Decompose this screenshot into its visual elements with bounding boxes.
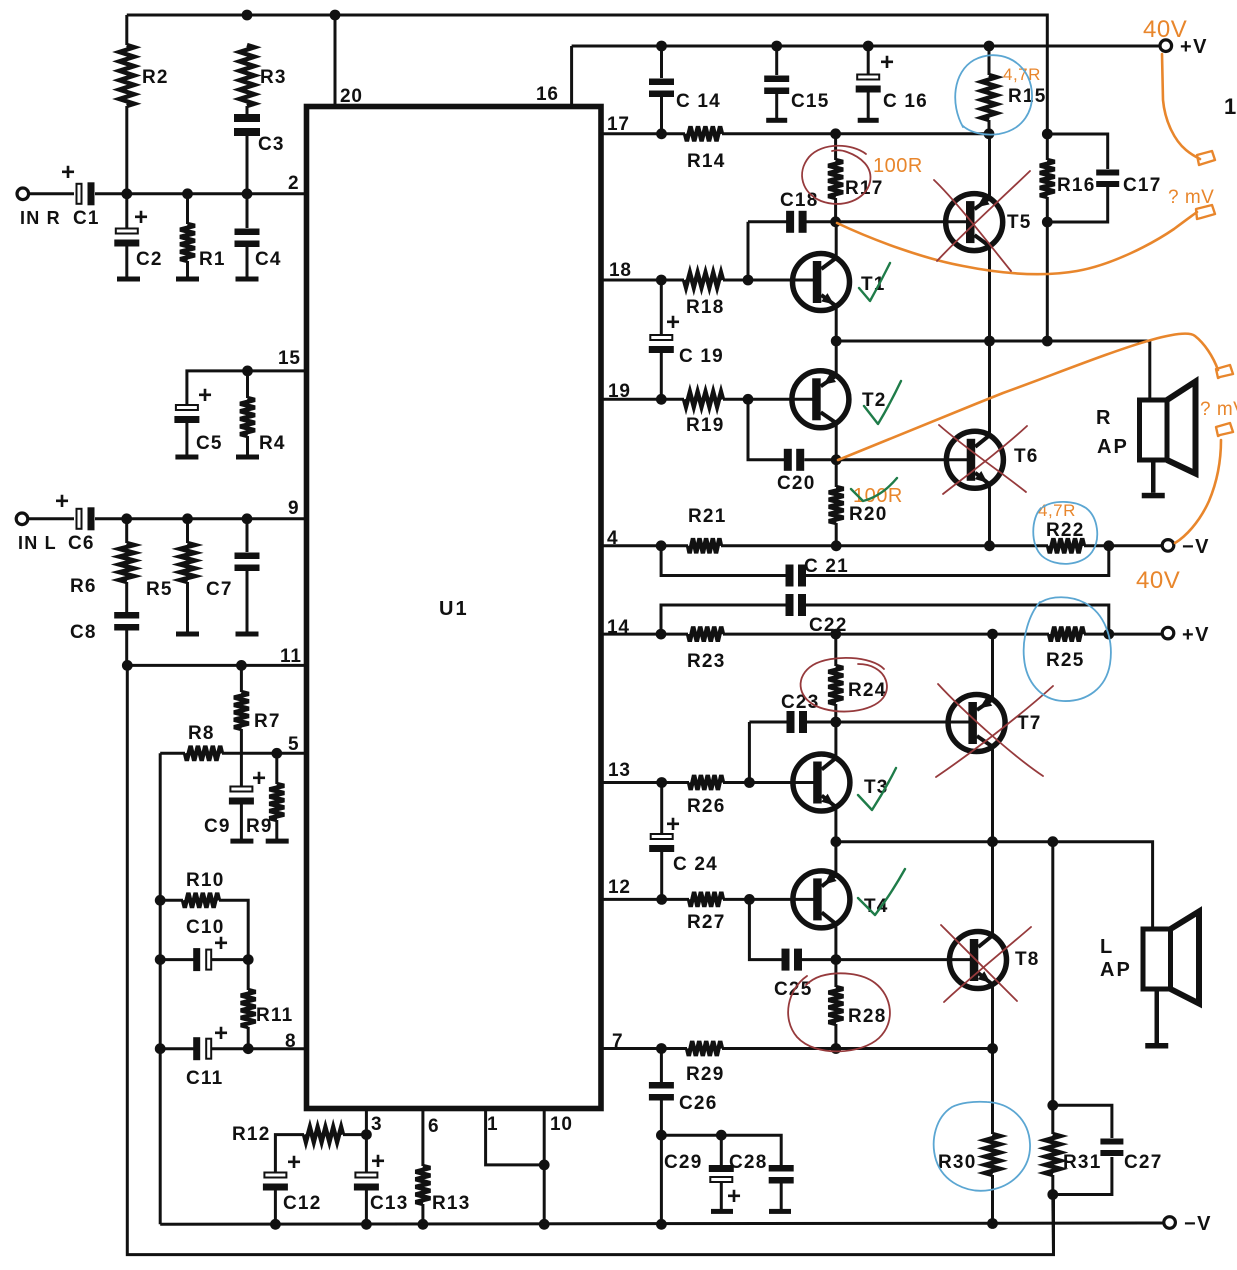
svg-text:C8: C8 (70, 622, 97, 643)
wire C3 to pin2 line (246, 136, 249, 194)
ground bar under C2 (117, 277, 140, 282)
wire T5 emitter up (988, 134, 991, 198)
capacitor C12 (263, 1173, 288, 1191)
svg-text:R8: R8 (188, 723, 215, 744)
svg-text:C3: C3 (258, 134, 285, 155)
transistor T6 (946, 431, 1003, 488)
transistor T4 (793, 871, 850, 928)
ground bar under R5 (176, 632, 199, 637)
wire C6 to pin 9 (95, 517, 307, 520)
svg-text:R25: R25 (1046, 650, 1084, 671)
annotation blue circle around R22 (1033, 502, 1097, 564)
wire pin 15 line (187, 371, 307, 406)
wire R6 stub (125, 519, 128, 543)
svg-text:C 24: C 24 (673, 854, 718, 875)
resistor R21 (688, 538, 721, 553)
svg-text:R7: R7 (254, 711, 281, 732)
wire pin 7 line right (722, 1047, 993, 1050)
terminal +V left-channel (1162, 627, 1174, 639)
capacitor C10 (193, 948, 211, 971)
capacitor C9 (229, 787, 254, 805)
wire pin 10 stub (543, 1109, 546, 1225)
junction node C10 line left (155, 954, 166, 965)
junction node C22 right on pin14 (1103, 629, 1114, 640)
svg-text:R29: R29 (686, 1064, 724, 1085)
ground bar under C16 (858, 118, 879, 123)
transistor T5 (946, 194, 1003, 251)
wire C14 stub (660, 46, 663, 78)
wire R17 to C18 node (834, 198, 837, 222)
junction node R15/T5 on pin17 (984, 128, 995, 139)
wire C23 line left (749, 721, 787, 724)
junction node C7 on pin9 line (242, 513, 253, 524)
wire C7 to ground (246, 571, 249, 633)
resistor R20 (829, 487, 844, 523)
svg-text:1: 1 (1224, 94, 1237, 119)
annotation blue circle around R15 (955, 55, 1032, 134)
junction node R6 on pin9 line (121, 513, 132, 524)
svg-text:+: + (214, 930, 229, 957)
capacitor C11 (193, 1037, 211, 1060)
wire C13 stub (365, 1135, 368, 1172)
resistor R2 (119, 45, 134, 106)
wire pin 20 stub (334, 15, 337, 107)
wire R5 stub (186, 519, 189, 543)
capacitor C15 (764, 76, 789, 95)
wire +V top rail (572, 45, 1161, 48)
resistor R12 (304, 1127, 343, 1142)
svg-text:C17: C17 (1123, 175, 1161, 196)
junction node C21 right on pin4 (1103, 540, 1114, 551)
wire R15 to pin17 line (988, 120, 991, 134)
annotation green check at T1 (859, 263, 890, 301)
svg-text:C 19: C 19 (679, 346, 724, 367)
annotation orange probe connector B (1196, 205, 1215, 219)
annotation blue circle around R25 (1024, 597, 1111, 701)
svg-text:R17: R17 (845, 178, 883, 199)
svg-text:C26: C26 (679, 1093, 717, 1114)
wire pin 17 line right (722, 132, 989, 135)
svg-text:C6: C6 (68, 533, 95, 554)
wire C26 stub (660, 1049, 663, 1083)
svg-text:R3: R3 (260, 67, 287, 88)
wire C9 to ground (240, 804, 243, 839)
wire C27 bottom (1053, 1157, 1112, 1195)
capacitor C27 (1100, 1139, 1123, 1157)
annotation orange probe curve from +V (1162, 54, 1200, 159)
capacitor C21 (786, 565, 807, 587)
svg-text:+: + (134, 204, 149, 231)
capacitor C18 (786, 211, 807, 233)
transistor T3 (793, 754, 850, 811)
svg-text:C7: C7 (206, 579, 233, 600)
junction node R9 on pin5 line (271, 748, 282, 759)
wire R7 stub (240, 665, 243, 692)
wire C26 to C28/C29 line (660, 1100, 663, 1135)
svg-text:C29: C29 (664, 1152, 702, 1173)
resistor R28 (829, 987, 844, 1024)
svg-text:+: + (666, 811, 681, 838)
wire pin 13 line right (723, 781, 817, 784)
svg-text:+: + (61, 159, 76, 186)
junction node C18 branch on pin18 (743, 275, 754, 286)
wire R4 top stub (246, 371, 249, 398)
wire output rail R (836, 341, 1150, 400)
svg-text:19: 19 (608, 381, 631, 402)
svg-text:+: + (252, 765, 267, 792)
svg-text:R22: R22 (1046, 520, 1084, 541)
svg-text:C2: C2 (136, 249, 163, 270)
wire pin 18 line left (601, 279, 684, 282)
junction node C24 top (656, 777, 667, 788)
resistor R11 (241, 990, 256, 1027)
ground bar under C7 (236, 632, 259, 637)
wire pin 7 line left (601, 1047, 687, 1050)
resistor R30 (985, 1134, 1000, 1175)
wire C20 line right (804, 458, 836, 461)
wire R10 left stub (160, 899, 183, 902)
junction node C19 bottom (656, 394, 667, 405)
annotation red X over T6 stroke 1 (939, 425, 1026, 492)
svg-text:IN R: IN R (20, 208, 61, 228)
wire pin 12 line left (601, 898, 689, 901)
junction node R28 on pin7 (831, 1043, 842, 1054)
wire C19 to pin19 line (660, 352, 663, 399)
ground bar under C15 (766, 118, 787, 123)
svg-text:14: 14 (607, 617, 630, 638)
junction node C8/outer border (122, 660, 133, 671)
svg-text:C5: C5 (196, 433, 223, 454)
wire R30 bottom wire (991, 1175, 994, 1224)
svg-text:4,7R: 4,7R (1038, 501, 1076, 520)
svg-text:C4: C4 (255, 249, 282, 270)
svg-text:U1: U1 (439, 598, 469, 620)
svg-text:C13: C13 (370, 1193, 408, 1214)
ground bar under C4 (236, 277, 259, 282)
junction node C25/T4/R28 (831, 954, 842, 965)
svg-text:R: R (1096, 407, 1111, 429)
junction node C13 bottom (361, 1219, 372, 1230)
annotation red X over T5 stroke 2 (937, 171, 1030, 261)
svg-text:R15: R15 (1008, 86, 1046, 107)
svg-text:12: 12 (608, 877, 631, 898)
transistor T7 (948, 695, 1005, 752)
wire T2 emitter to C20 node (835, 423, 838, 460)
wire T6 emitter down (988, 484, 991, 546)
wire R16 bottom to rail (1046, 197, 1049, 341)
svg-text:T8: T8 (1015, 949, 1040, 970)
junction node R7 top (236, 660, 247, 671)
wire T1 collector to C18 node (835, 222, 838, 258)
annotation orange probe curve from T5 base node (837, 212, 1197, 274)
wire C2 to ground (125, 245, 128, 277)
wire C10 line left (160, 958, 195, 961)
wire pin 1 jog (486, 1109, 545, 1165)
junction node R24 top (830, 629, 841, 640)
junction node R3/C4 on pin2 line (242, 188, 253, 199)
junction node R5 on pin9 line (182, 513, 193, 524)
wire C4 stub (246, 194, 249, 228)
junction node C26 top (656, 1043, 667, 1054)
wire pin 17 line left (601, 132, 685, 135)
svg-text:R5: R5 (146, 579, 173, 600)
svg-text:C 14: C 14 (676, 91, 721, 112)
svg-text:R31: R31 (1063, 1152, 1101, 1173)
wire inner left vertical (159, 753, 162, 1224)
wire pin 13 line left (601, 781, 689, 784)
resistor R22 (1048, 538, 1084, 553)
junction node R31 column on rail L (1047, 836, 1058, 847)
junction node pin20 on top rail (330, 10, 341, 21)
wire C20 branch (748, 399, 784, 460)
junction node R10 line left (155, 895, 166, 906)
wire C13 to bottom line (365, 1190, 368, 1225)
svg-text:T6: T6 (1014, 446, 1039, 467)
junction node R3 top on rail (242, 10, 253, 21)
wire C23 line right (807, 721, 836, 724)
capacitor C14 (649, 79, 674, 98)
svg-text:2: 2 (288, 173, 299, 194)
junction node C14 on pin17 (656, 128, 667, 139)
annotation red circle around R24 (801, 658, 887, 712)
wire C17 loop (1047, 134, 1107, 169)
annotation orange probe curve from C20 output node (838, 334, 1218, 460)
annotation green check at T3 (858, 768, 896, 810)
capacitor C5 (174, 405, 199, 423)
svg-text:R13: R13 (432, 1193, 470, 1214)
wire R5 to ground (186, 582, 189, 632)
annotation red X over T5 stroke 1 (934, 180, 1011, 271)
wire R31 stubs (1051, 1105, 1054, 1134)
wire C5 to ground (185, 422, 188, 455)
resistor R23 (688, 627, 723, 642)
svg-text:C15: C15 (791, 91, 829, 112)
capacitor C29 (709, 1165, 734, 1182)
resistor R7 (234, 692, 249, 729)
wire C15 stub (775, 46, 778, 75)
wire R1 to ground (186, 261, 189, 277)
svg-text:R14: R14 (687, 151, 725, 172)
wire R2 to pin2 line (125, 106, 128, 194)
svg-text:C20: C20 (777, 473, 815, 494)
svg-text:+: + (727, 1183, 742, 1210)
junction node R17 top (830, 128, 841, 139)
capacitor C7 (235, 553, 260, 572)
wire C14 to pin17 line (660, 97, 663, 134)
ground bar under C9 (230, 839, 253, 844)
wire C19 stubs (660, 280, 663, 335)
wire C29 stub (720, 1135, 723, 1165)
svg-text:R6: R6 (70, 576, 97, 597)
wire bottom -V line (160, 1223, 1164, 1224)
svg-text:C12: C12 (283, 1193, 321, 1214)
capacitor C13 (354, 1173, 379, 1191)
svg-text:7: 7 (612, 1031, 623, 1052)
svg-text:R1: R1 (199, 249, 226, 270)
wire T8 emitter down (991, 984, 994, 1134)
wire T3 collector up (834, 722, 837, 758)
resistor R1 (180, 224, 195, 261)
wire R28 to pin7 line (834, 1024, 837, 1049)
wire top rail from R2 to R16 corner (127, 15, 1048, 134)
svg-text:−V: −V (1182, 536, 1210, 558)
junction node C21 branch on pin4 (656, 540, 667, 551)
svg-text:6: 6 (428, 1116, 439, 1137)
junction node R13 bottom (418, 1219, 429, 1230)
wire T8 base line (836, 958, 970, 961)
wire R4 to ground (246, 436, 249, 455)
svg-text:+: + (198, 382, 213, 409)
wire pin 5 line left (160, 752, 185, 755)
junction node T1/T2 output (831, 336, 842, 347)
wire C11 line left (160, 1047, 195, 1050)
wire R16 stubs (1046, 134, 1049, 160)
svg-text:+: + (55, 488, 70, 515)
wire C21 line right (806, 546, 1109, 576)
svg-text:R16: R16 (1057, 175, 1095, 196)
svg-text:15: 15 (278, 348, 301, 369)
wire R7 to C9 (240, 729, 243, 786)
speaker R AP (right channel loudspeaker) (1140, 382, 1196, 499)
wire pin 14 line right (1084, 633, 1162, 636)
svg-text:C9: C9 (204, 816, 231, 837)
svg-text:R28: R28 (848, 1006, 886, 1027)
resistor R4 (240, 398, 255, 436)
capacitor C2 (114, 229, 139, 247)
junction node R16 bottom (1042, 217, 1053, 228)
wire R6 to C8 (125, 582, 128, 612)
svg-text:R18: R18 (686, 297, 724, 318)
wire T5 collector down (988, 246, 991, 341)
wire C28/C29 top line (661, 1135, 781, 1165)
transistor T8 (950, 932, 1007, 989)
wire C1 to pin 2 (95, 192, 307, 195)
svg-text:L: L (1100, 936, 1113, 958)
svg-text:C 16: C 16 (883, 91, 928, 112)
transistor T2 (792, 371, 849, 428)
annotation red X over T8 stroke 1 (941, 925, 1017, 1001)
terminal IN R (17, 188, 29, 200)
capacitor C1 (77, 182, 95, 205)
svg-text:R9: R9 (246, 816, 273, 837)
svg-text:1: 1 (487, 1114, 498, 1135)
wire pin 5 line right (222, 752, 307, 755)
wire T2 collector to output rail (835, 341, 838, 375)
capacitor C6 (77, 507, 95, 530)
wire R11 to pin8 line (247, 1027, 250, 1049)
resistor R3 (240, 45, 255, 106)
resistor R10 (183, 893, 219, 908)
terminal -V right (1162, 540, 1174, 552)
junction node T6 emitter on pin4 (984, 540, 995, 551)
junction node R16 column on rail (1042, 336, 1053, 347)
svg-text:C11: C11 (186, 1068, 223, 1089)
svg-text:R10: R10 (186, 870, 224, 891)
wire T7 base line (836, 721, 969, 724)
svg-text:+: + (880, 49, 895, 76)
annotation green check at T4 (858, 869, 905, 915)
wire T7 collector down (991, 747, 994, 842)
svg-text:17: 17 (607, 114, 630, 135)
svg-text:AP: AP (1100, 959, 1132, 981)
svg-text:8: 8 (285, 1031, 296, 1052)
resistor R26 (689, 775, 723, 790)
resistor R31 (1045, 1134, 1060, 1175)
junction node C16 top (863, 41, 874, 52)
wire pin 18 line right (723, 279, 817, 282)
annotation red X over T6 stroke 2 (943, 426, 1027, 494)
wire C16 stub (867, 46, 870, 74)
wire outer left border down (127, 665, 1053, 1254)
svg-text:10: 10 (550, 1114, 573, 1135)
wire T8 collector up (991, 842, 994, 936)
junction node C22 branch on pin14 (656, 629, 667, 640)
junction node C12 bottom (270, 1219, 281, 1230)
junction node R30 bottom on -V line (987, 1218, 998, 1229)
wire pin 3 stub (365, 1109, 368, 1135)
junction node C29 top (716, 1130, 727, 1141)
svg-text:R20: R20 (849, 504, 887, 525)
wire R2 top stub (125, 15, 128, 45)
svg-text:13: 13 (608, 760, 631, 781)
resistor R17 (828, 160, 843, 198)
wire R3 to C3 (246, 106, 249, 115)
svg-text:R21: R21 (688, 506, 726, 527)
ground bar under R4 (236, 455, 259, 460)
resistor R5 (180, 543, 195, 582)
wire C18 line left (748, 220, 787, 223)
wire C4 to ground (246, 247, 249, 278)
wire R24 top stub (834, 634, 837, 666)
wire IN L to C6 (28, 517, 74, 520)
op-amp/power IC U1 box (307, 107, 602, 1109)
transistor T1 (793, 254, 850, 311)
svg-text:16: 16 (536, 84, 559, 105)
wire C25 branch (749, 899, 782, 959)
annotation green check at R20 (851, 478, 897, 501)
ground bar under C29 (711, 1209, 733, 1214)
svg-text:R24: R24 (848, 680, 886, 701)
resistor R15 (982, 75, 997, 120)
wire T1 emitter to output rail (835, 306, 838, 341)
resistor R6 (119, 543, 134, 582)
svg-text:100R: 100R (873, 155, 923, 177)
speaker L AP (left channel loudspeaker) (1143, 912, 1199, 1049)
wire C10 line right (212, 958, 249, 961)
wire R1 stub (186, 194, 189, 224)
svg-text:+: + (371, 1148, 386, 1175)
junction node pin10 bottom (539, 1219, 550, 1230)
svg-text:R30: R30 (938, 1152, 976, 1173)
wire pin 11 line (127, 664, 306, 667)
wire output rail L (836, 842, 1153, 929)
svg-text:3: 3 (371, 1114, 382, 1135)
svg-text:C23: C23 (781, 692, 819, 713)
wire R31 column upper (1051, 842, 1054, 1106)
junction node R15 top (984, 41, 995, 52)
svg-text:+: + (287, 1149, 302, 1176)
capacitor C25 (782, 949, 803, 971)
junction node C29 on -V line (656, 1219, 667, 1230)
svg-text:IN L: IN L (18, 533, 57, 553)
svg-text:−V: −V (1184, 1213, 1212, 1235)
wire C2 stub (125, 194, 128, 228)
wire T6 base line (836, 458, 967, 461)
svg-text:+V: +V (1182, 624, 1210, 646)
junction node C11 line left (155, 1043, 166, 1054)
resistor R25 (1049, 627, 1084, 642)
wire C28 to bar (780, 1183, 783, 1209)
